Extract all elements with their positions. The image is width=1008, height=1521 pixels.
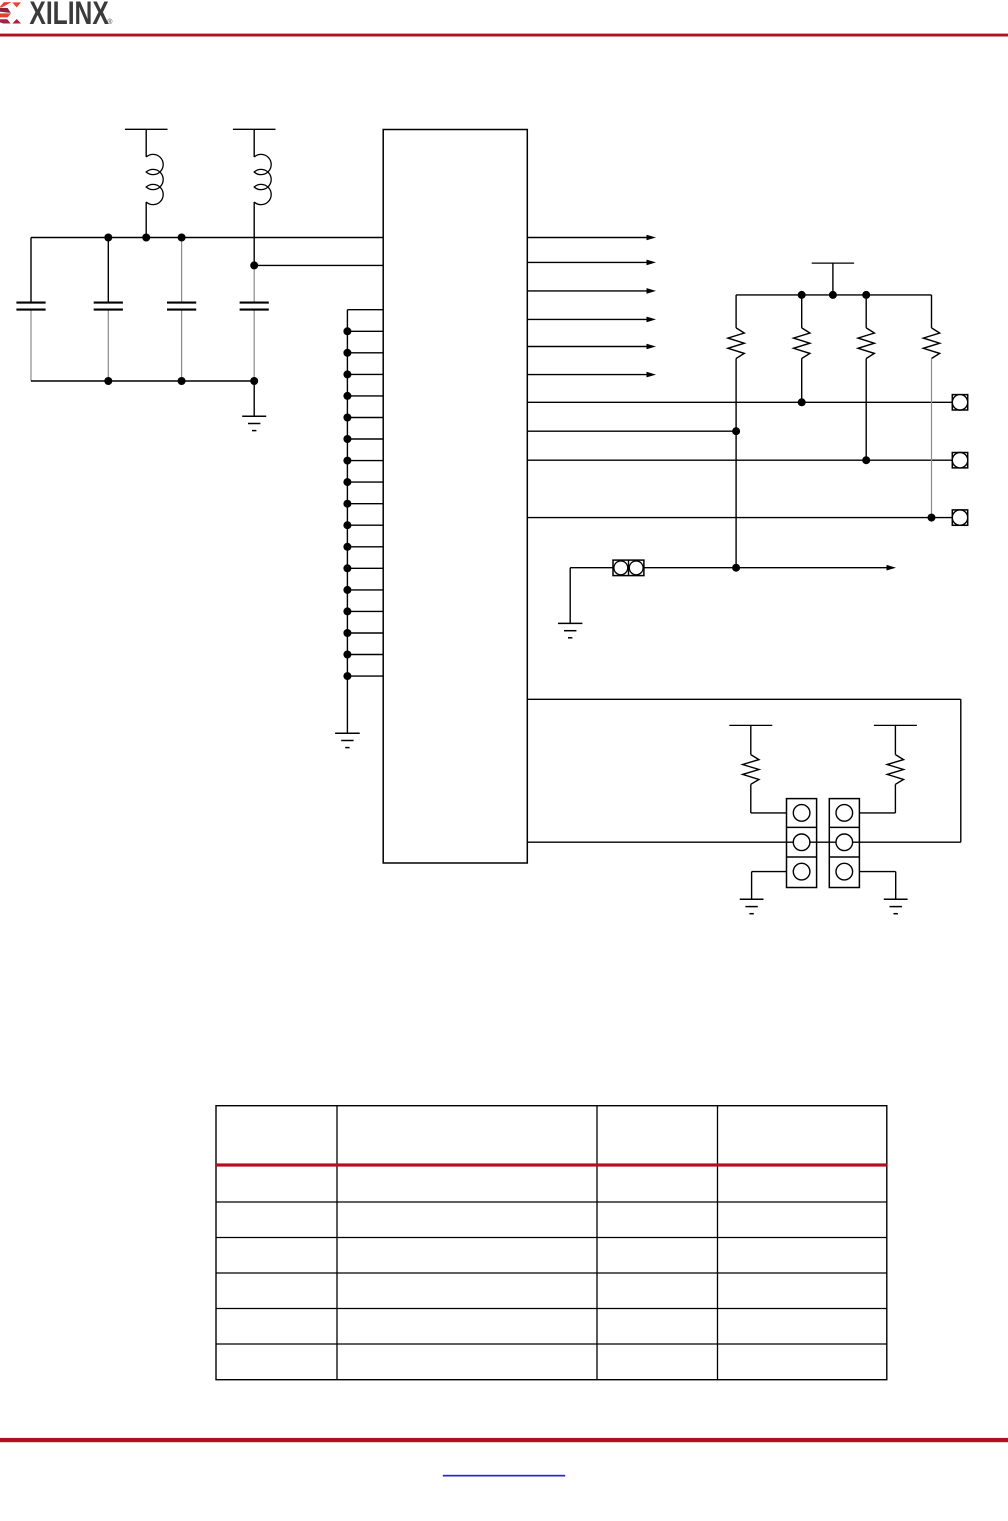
svg-text:®: ® <box>107 18 113 26</box>
svg-text:XILINX: XILINX <box>29 0 108 32</box>
